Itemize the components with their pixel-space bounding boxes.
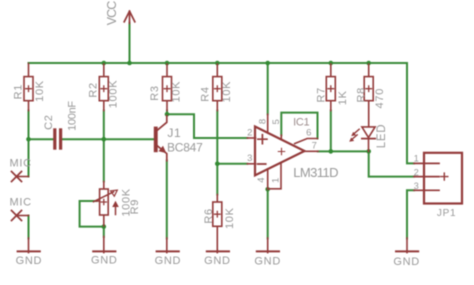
svg-text:GND: GND xyxy=(16,255,43,267)
pin 1 stub xyxy=(268,163,281,189)
svg-text:10K: 10K xyxy=(171,81,183,103)
ground R9 xyxy=(93,237,115,253)
svg-text:7: 7 xyxy=(312,141,318,152)
ground op-amp xyxy=(257,238,279,253)
svg-text:IC1: IC1 xyxy=(293,117,309,129)
svg-text:GND: GND xyxy=(254,256,281,268)
svg-text:1: 1 xyxy=(270,177,281,183)
junction R9 bottom node xyxy=(102,224,107,229)
wire MIC pin 2 to ground xyxy=(28,216,30,239)
potentiometer R9 xyxy=(94,182,119,227)
junction bus R3 xyxy=(165,61,170,66)
svg-text:10K: 10K xyxy=(221,81,233,103)
svg-text:C2: C2 xyxy=(43,114,55,129)
resistor R7 xyxy=(326,64,335,111)
svg-text:GND: GND xyxy=(155,255,182,267)
wire VCC stem xyxy=(129,23,131,63)
transistor Q1 J1 BC847 xyxy=(154,116,167,161)
wire node A to C2 left xyxy=(29,138,54,140)
svg-text:3: 3 xyxy=(414,181,420,191)
junction node A xyxy=(26,137,31,142)
junction node C xyxy=(215,162,220,167)
resistor R1 xyxy=(24,64,33,111)
svg-text:2: 2 xyxy=(247,127,253,138)
ground MIC xyxy=(18,238,40,253)
wire R9 bottom node to ground xyxy=(103,227,105,237)
resistor R6 xyxy=(213,195,222,252)
svg-text:BC847: BC847 xyxy=(167,141,203,155)
wire R7 bottom to output node xyxy=(330,111,332,152)
svg-text:J1: J1 xyxy=(167,126,181,140)
resistor R8 xyxy=(364,64,373,127)
pin 6 stub xyxy=(295,139,318,144)
wire node B to R9 top xyxy=(103,139,105,181)
pin 5 stub xyxy=(280,135,282,139)
svg-text:GND: GND xyxy=(91,255,118,267)
resistor R4 xyxy=(213,64,222,111)
junction bus op-amp supply xyxy=(265,61,270,66)
wire VCC net top bus xyxy=(29,63,415,163)
svg-text:10K: 10K xyxy=(224,207,236,229)
svg-text:VCC: VCC xyxy=(105,1,119,26)
svg-text:2: 2 xyxy=(414,168,420,178)
wire op-amp output to LED node xyxy=(318,150,369,152)
wire node C to R6 top xyxy=(216,164,218,195)
svg-text:6: 6 xyxy=(306,128,312,139)
pin 4 stub xyxy=(267,169,269,190)
capacitor C2 xyxy=(53,128,62,149)
pin 2 stub xyxy=(247,137,255,139)
svg-text:LED: LED xyxy=(376,124,388,148)
svg-text:5: 5 xyxy=(271,119,282,125)
wire op-amp pins 1,4 to ground xyxy=(267,189,269,238)
svg-text:MIC: MIC xyxy=(9,196,31,208)
svg-text:100K: 100K xyxy=(108,80,120,109)
svg-text:470: 470 xyxy=(374,88,386,108)
svg-text:R2: R2 xyxy=(88,82,100,97)
svg-text:R7: R7 xyxy=(316,87,328,102)
resistor R3 xyxy=(163,64,172,111)
wire collector node to op-amp pin 2 xyxy=(167,114,247,138)
junction output R7 tap xyxy=(329,149,334,154)
junction bus R8 xyxy=(366,61,371,66)
wire C2 right to J1 base xyxy=(62,138,154,140)
pin MIC 2 xyxy=(12,211,29,221)
pin 8 stub xyxy=(267,114,269,133)
svg-text:R3: R3 xyxy=(149,85,161,100)
pin 7 stub xyxy=(305,150,319,152)
svg-text:R6: R6 xyxy=(203,208,215,223)
junction bus R4 xyxy=(215,61,220,66)
pin 3 stub xyxy=(247,163,255,165)
svg-text:1: 1 xyxy=(414,153,420,163)
resistor R2 xyxy=(99,64,108,111)
svg-text:100nF: 100nF xyxy=(66,101,78,131)
svg-text:R8: R8 xyxy=(355,87,367,102)
LED D1 xyxy=(349,127,375,151)
junction node B xyxy=(102,137,107,142)
ground emitter xyxy=(157,238,179,253)
wire J1 emitter to ground xyxy=(166,161,168,239)
svg-text:R4: R4 xyxy=(200,86,212,101)
wire R3 bottom to collector node xyxy=(166,111,168,115)
junction collector node xyxy=(165,112,170,117)
junction bus VCC xyxy=(127,61,132,66)
connector JP1 xyxy=(414,153,462,204)
wire R4 bottom to node C xyxy=(216,111,218,164)
op-amp U1 LM311D xyxy=(255,127,305,176)
ground R6 xyxy=(207,250,229,253)
svg-text:4: 4 xyxy=(256,177,267,183)
svg-text:R9: R9 xyxy=(129,199,141,214)
svg-text:LM311D: LM311D xyxy=(293,165,338,180)
junction op-amp ground node xyxy=(265,187,270,192)
svg-text:GND: GND xyxy=(204,255,231,267)
ground JP1 xyxy=(396,238,418,253)
svg-text:1K: 1K xyxy=(337,90,349,105)
junction bus R7 xyxy=(329,61,334,66)
wire R2 bottom to node B xyxy=(103,111,105,140)
junction output LED node xyxy=(366,149,371,154)
svg-text:3: 3 xyxy=(247,153,253,164)
wire bus to op-amp pin 8 xyxy=(267,63,269,114)
svg-text:10K: 10K xyxy=(34,80,46,102)
svg-text:JP1: JP1 xyxy=(437,208,456,219)
wire balance loop pin 5 to pin 6 xyxy=(281,113,317,139)
wire JP1 pin 3 to ground xyxy=(407,190,414,238)
wire R9 wiper loop xyxy=(80,201,104,227)
wire R1 bottom to node A xyxy=(28,111,30,140)
junction bus R2 xyxy=(102,61,107,66)
wire output node down to JP1 pin 2 xyxy=(369,151,414,176)
svg-text:GND: GND xyxy=(393,256,420,268)
svg-text:8: 8 xyxy=(257,118,268,124)
wire node C to op-amp pin 3 xyxy=(217,163,247,165)
supply symbol VCC xyxy=(124,11,135,23)
wire node A to MIC pin 1 xyxy=(28,139,30,176)
svg-text:MIC: MIC xyxy=(9,157,31,169)
svg-text:R1: R1 xyxy=(12,84,24,99)
pin MIC 1 xyxy=(12,172,29,182)
